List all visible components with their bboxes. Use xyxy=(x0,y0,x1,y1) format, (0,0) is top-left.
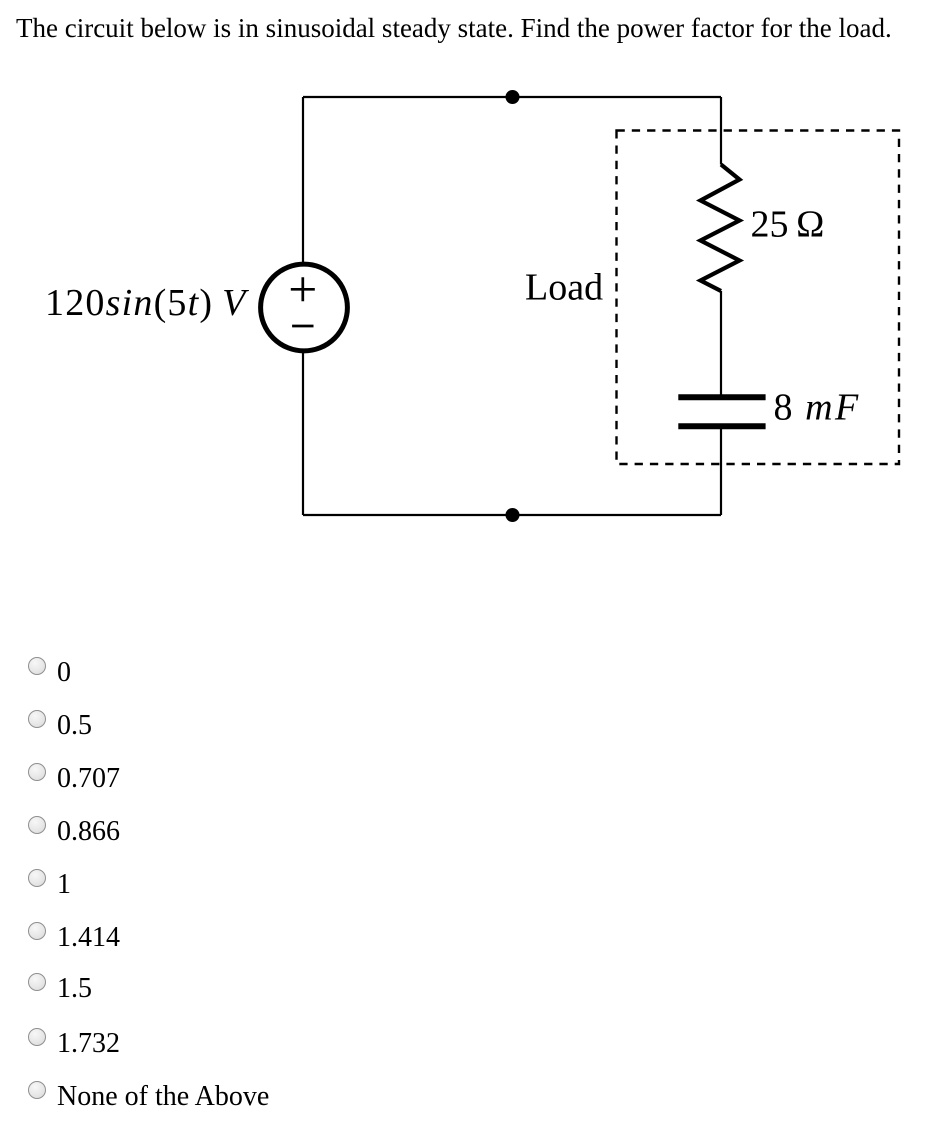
svg-text:Load: Load xyxy=(525,267,603,309)
svg-text:8 mF: 8 mF xyxy=(774,386,861,428)
svg-text:25 Ω: 25 Ω xyxy=(751,204,825,246)
svg-text:120sin(5t) V: 120sin(5t) V xyxy=(45,282,249,324)
